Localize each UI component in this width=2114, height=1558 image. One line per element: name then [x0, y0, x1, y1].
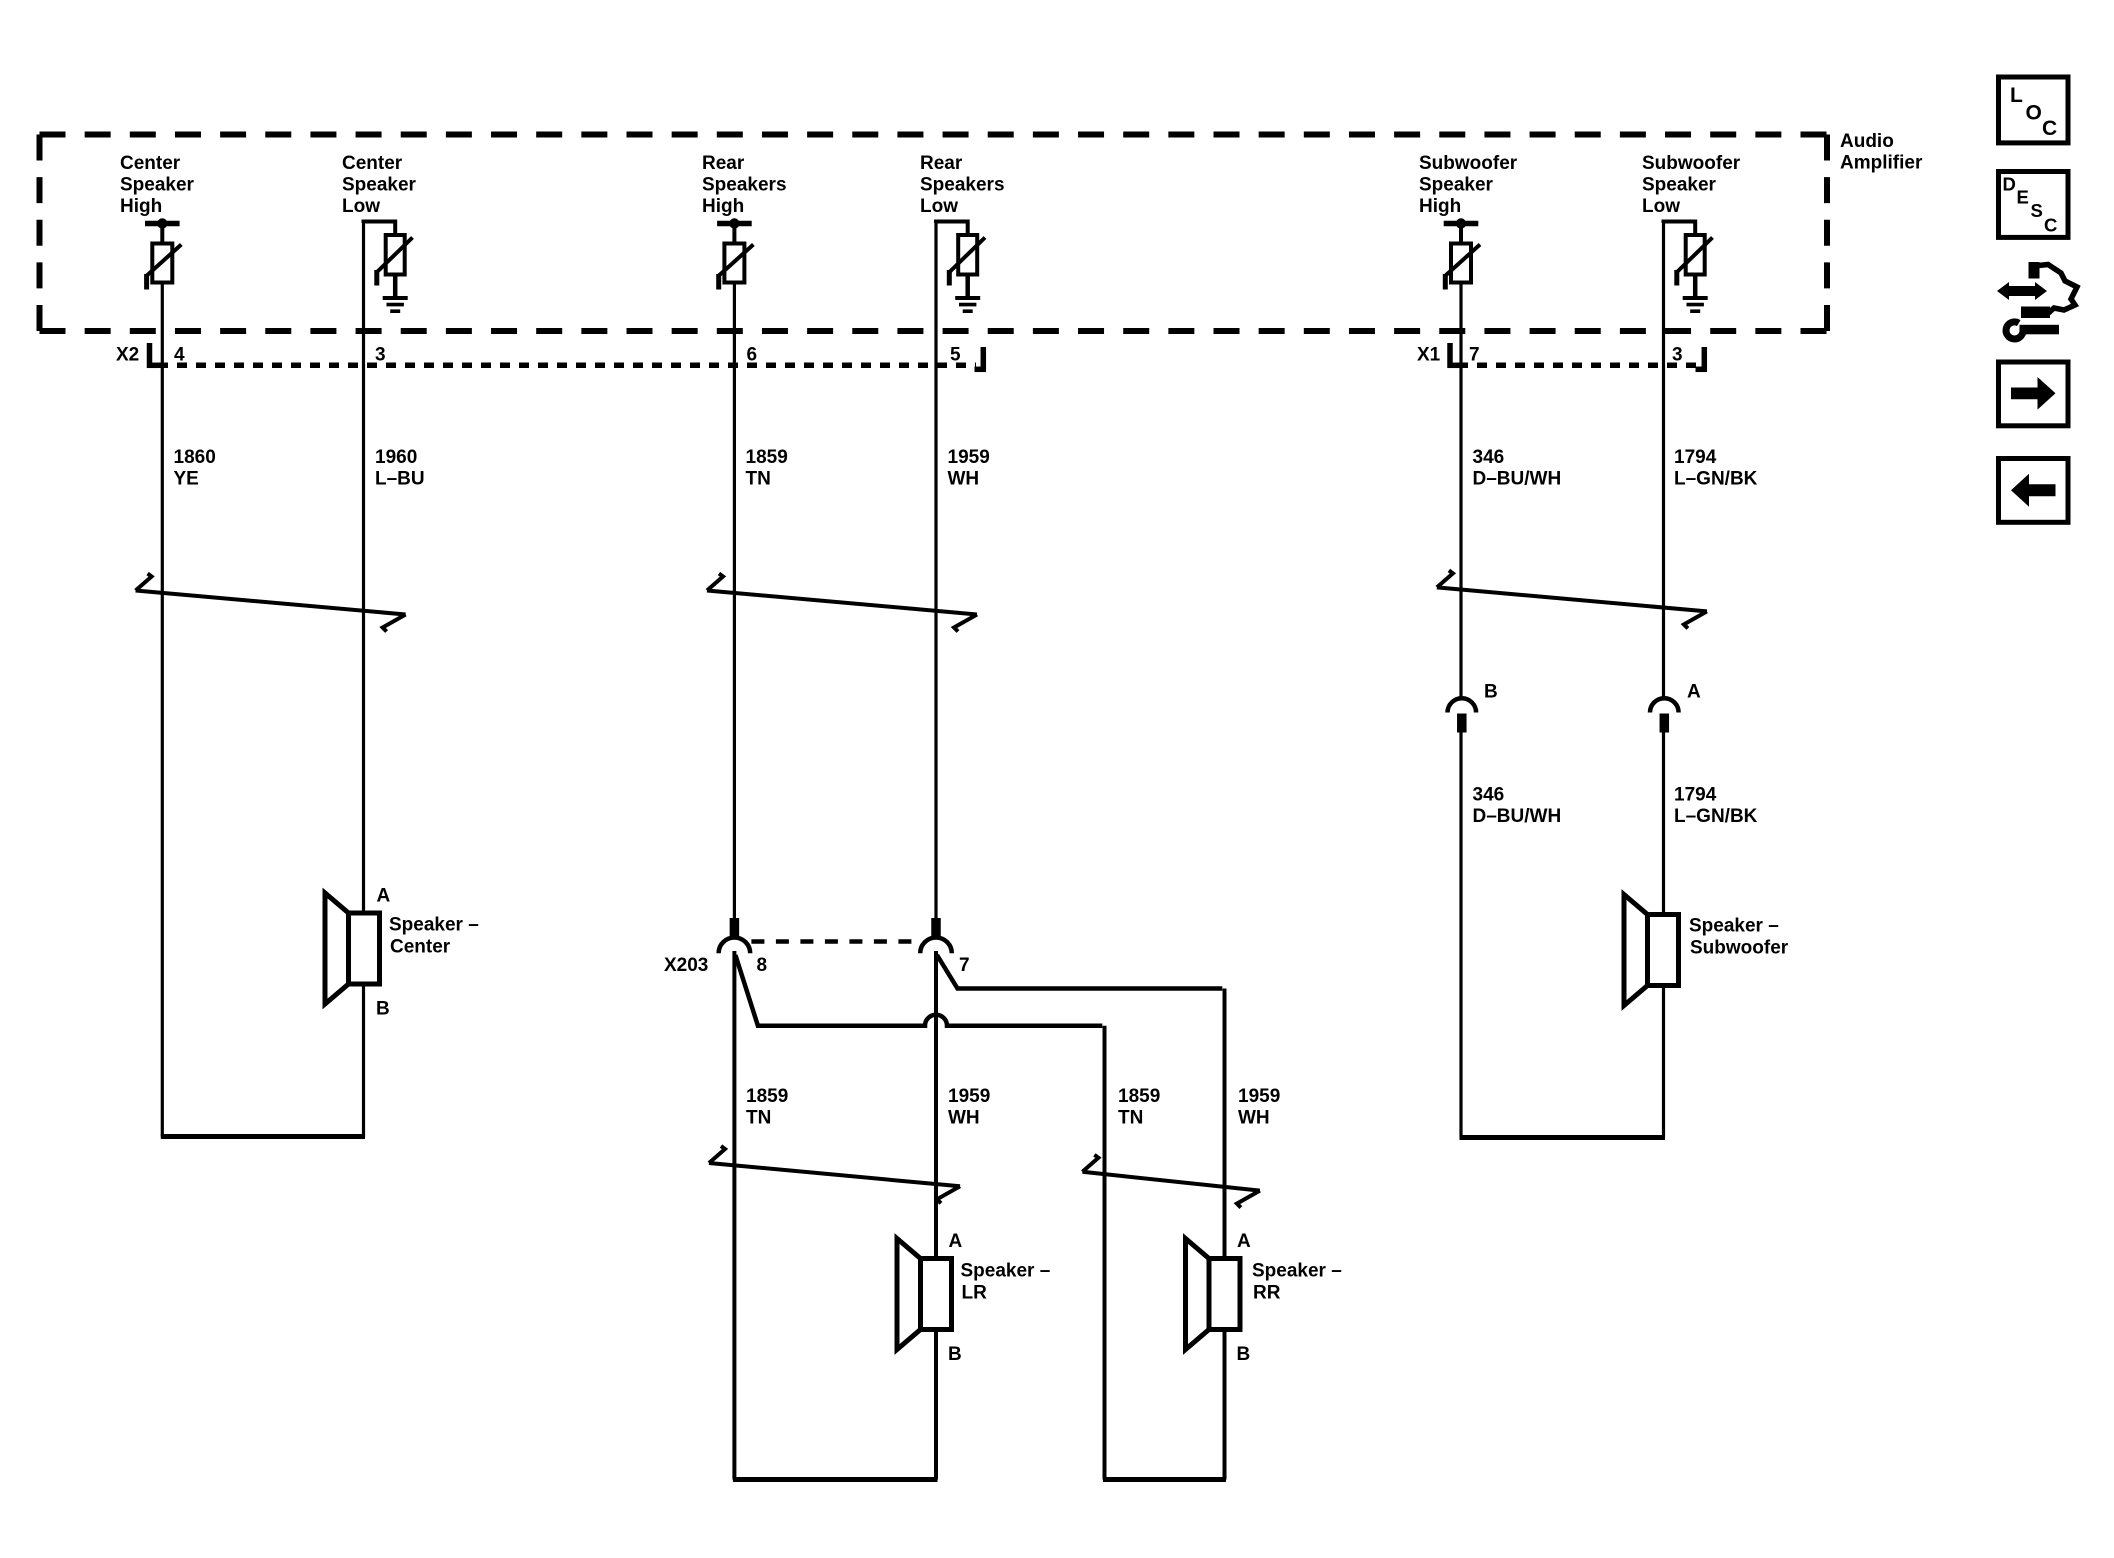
svg-text:Speaker –: Speaker –: [1689, 916, 1779, 937]
svg-text:X2: X2: [116, 345, 139, 366]
connector X2 bracket: [147, 343, 159, 368]
svg-text:8: 8: [757, 955, 768, 976]
wire circuit 1859 TN, amp X2-6 to X203 pin 8: [733, 283, 736, 919]
wire circuit 346 D-BU/WH, amp X1-7 to inline connector B: [1459, 283, 1462, 700]
svg-text:Center: Center: [120, 153, 181, 174]
svg-text:X1: X1: [1417, 345, 1441, 366]
svg-text:Subwoofer: Subwoofer: [1419, 153, 1518, 174]
svg-text:Speaker –: Speaker –: [961, 1261, 1051, 1282]
svg-text:O: O: [2026, 102, 2042, 125]
Speaker-RR terminal B: [1237, 1344, 1251, 1365]
svg-text:L–BU: L–BU: [375, 469, 425, 490]
svg-text:D: D: [2003, 174, 2016, 195]
wire label 1959 WH to LR: [948, 1086, 990, 1129]
pin label Center Speaker Low: [342, 153, 417, 217]
svg-text:Low: Low: [1642, 196, 1680, 217]
svg-text:1960: 1960: [375, 447, 417, 468]
svg-text:B: B: [948, 1344, 962, 1365]
svg-text:D–BU/WH: D–BU/WH: [1473, 469, 1562, 490]
X2 pin 4: [174, 345, 185, 366]
wire circuit 1959 WH, amp X2-5 to X203 pin 7: [934, 222, 937, 919]
connector X203 label: [664, 955, 708, 976]
svg-text:LR: LR: [962, 1283, 988, 1304]
svg-text:Rear: Rear: [920, 153, 963, 174]
pin label Subwoofer Speaker High: [1419, 153, 1518, 217]
svg-text:Speakers: Speakers: [920, 175, 1005, 196]
X2 pin 6: [747, 345, 758, 366]
Speaker-LR terminal B: [948, 1344, 962, 1365]
svg-text:346: 346: [1473, 785, 1505, 806]
svg-text:1959: 1959: [948, 1086, 990, 1107]
X2 pin 5: [950, 345, 961, 366]
wire circuit 1959 WH, X203 pin 7 down through Speaker-LR: [934, 951, 938, 1480]
pin label Subwoofer Speaker Low: [1642, 153, 1741, 217]
svg-text:B: B: [1237, 1344, 1251, 1365]
Speaker-RR terminal A: [1237, 1231, 1251, 1252]
svg-text:B: B: [1484, 682, 1498, 703]
Speaker-Subwoofer symbol: [1624, 895, 1679, 1006]
svg-text:3: 3: [1672, 345, 1683, 366]
inline connector A female terminal arc: [1650, 698, 1679, 712]
svg-text:L–GN/BK: L–GN/BK: [1674, 806, 1758, 827]
Speaker-LR terminal A: [949, 1231, 963, 1252]
wire splice loop Speaker-Subwoofer bottom: [1460, 1135, 1666, 1140]
wire label 1859 TN to LR: [746, 1086, 788, 1129]
svg-text:346: 346: [1473, 447, 1505, 468]
Speaker-RR symbol: [1186, 1239, 1241, 1350]
svg-text:Subwoofer: Subwoofer: [1642, 153, 1741, 174]
svg-text:1859: 1859: [1118, 1086, 1160, 1107]
svg-text:Speaker –: Speaker –: [1252, 1261, 1342, 1282]
svg-text:4: 4: [174, 345, 185, 366]
wire label 1960 L-BU: [375, 447, 425, 490]
svg-text:D–BU/WH: D–BU/WH: [1473, 806, 1562, 827]
Speaker-LR label: [961, 1261, 1051, 1304]
svg-text:Speaker –: Speaker –: [389, 915, 479, 936]
svg-text:YE: YE: [174, 469, 199, 490]
svg-text:TN: TN: [746, 469, 771, 490]
harness break rear speaker feed pair: [707, 574, 977, 632]
wire label 1859 TN to RR: [1118, 1086, 1160, 1129]
svg-text:1859: 1859: [746, 447, 788, 468]
X2 pin 3: [375, 345, 386, 366]
svg-text:TN: TN: [746, 1108, 771, 1129]
wire splice loop Speaker-LR bottom: [733, 1477, 938, 1482]
svg-text:C: C: [2042, 117, 2057, 140]
harness break subwoofer pair: [1437, 570, 1707, 628]
Center Speaker High output terminal (variable attenuator symbol): [145, 218, 181, 289]
Speaker-LR symbol: [897, 1239, 952, 1350]
X1 pin 3: [1672, 345, 1683, 366]
svg-text:Rear: Rear: [702, 153, 745, 174]
wire branch X203-8 to RR return (with hop over 1959 WH): [735, 955, 1102, 1026]
harness break center speaker pair: [136, 574, 406, 632]
ground symbol at Subwoofer Speaker Low: [1683, 298, 1708, 311]
svg-text:C: C: [2044, 215, 2057, 236]
inline connector B male pin: [1457, 714, 1467, 733]
svg-text:1794: 1794: [1674, 447, 1717, 468]
connector X2 label: [116, 345, 139, 366]
inline connector A male pin: [1660, 714, 1670, 733]
Speaker-Center symbol: [325, 893, 380, 1004]
svg-text:7: 7: [959, 955, 970, 976]
sidebar DESC button: [1999, 172, 2069, 238]
svg-text:Low: Low: [342, 196, 380, 217]
svg-text:Speaker: Speaker: [120, 175, 195, 196]
svg-text:Speakers: Speakers: [702, 175, 787, 196]
connector X1 bracket: [1448, 343, 1460, 368]
sidebar back arrow button: [1999, 459, 2069, 523]
harness break LR speaker pair: [709, 1146, 960, 1203]
Speaker-Center label: [389, 915, 479, 958]
label Audio Amplifier: [1840, 131, 1923, 174]
ground symbol at Center Speaker Low: [383, 298, 408, 311]
svg-text:TN: TN: [1118, 1108, 1143, 1129]
inline connector terminal letter B: [1484, 682, 1498, 703]
Speaker-Center terminal A: [377, 886, 391, 907]
ground symbol at Rear Speakers Low: [955, 298, 980, 311]
wire circuit 1860 YE, amp X2-4 down to splice U1: [161, 283, 164, 1137]
svg-text:L: L: [2010, 84, 2023, 107]
svg-text:1794: 1794: [1674, 785, 1717, 806]
svg-text:WH: WH: [1238, 1108, 1270, 1129]
svg-text:3: 3: [375, 345, 386, 366]
svg-text:High: High: [1419, 196, 1461, 217]
connector X2 dashed harness line: [158, 363, 976, 369]
connector X203 pin 7 number: [959, 955, 970, 976]
sidebar LOC button: [1999, 77, 2069, 143]
svg-text:B: B: [376, 999, 390, 1020]
svg-text:X203: X203: [664, 955, 708, 976]
harness break RR speaker pair: [1082, 1155, 1260, 1208]
sidebar wiring/repair icon: double arrow: [1997, 282, 2047, 300]
svg-text:1959: 1959: [1238, 1086, 1280, 1107]
svg-text:A: A: [949, 1231, 963, 1252]
svg-text:Subwoofer: Subwoofer: [1690, 938, 1789, 959]
svg-text:S: S: [2031, 200, 2043, 221]
svg-text:RR: RR: [1253, 1283, 1281, 1304]
svg-text:E: E: [2017, 187, 2029, 208]
svg-text:High: High: [120, 196, 162, 217]
connector X203 pin 8 number: [757, 955, 768, 976]
svg-text:1860: 1860: [174, 447, 216, 468]
svg-text:A: A: [377, 886, 391, 907]
Speaker-Subwoofer label: [1689, 916, 1789, 959]
svg-text:WH: WH: [948, 1108, 980, 1129]
connector X203 pin 8 male pin: [730, 918, 740, 939]
svg-text:Amplifier: Amplifier: [1840, 153, 1923, 174]
wire circuit 1794 L-GN/BK, connector A through Speaker-Subwoofer: [1662, 733, 1665, 1138]
sidebar wiring/repair icon: wrench: [2006, 322, 2059, 339]
svg-text:A: A: [1687, 682, 1701, 703]
inline connector terminal letter A: [1687, 682, 1701, 703]
pin label Rear Speakers Low: [920, 153, 1005, 217]
connector X203 pin 7 female terminal arc: [920, 938, 952, 954]
inline connector B female terminal arc: [1448, 698, 1477, 712]
wire label 1959 WH upper: [948, 447, 990, 490]
Subwoofer Speaker High output terminal (variable attenuator symbol): [1444, 218, 1480, 289]
pin label Rear Speakers High: [702, 153, 787, 217]
svg-text:Audio: Audio: [1840, 131, 1894, 152]
connector X203 dashed link: [751, 939, 919, 944]
svg-text:Center: Center: [342, 153, 403, 174]
wire label 346 D-BU/WH upper: [1473, 447, 1562, 490]
wire circuit 1959 WH branch through Speaker-RR: [1223, 989, 1227, 1480]
wire label 346 D-BU/WH lower: [1473, 785, 1562, 828]
svg-text:Speaker: Speaker: [342, 175, 417, 196]
wire circuit 1794 L-GN/BK, amp X1-3 to inline connector A: [1662, 222, 1665, 700]
wire label 1794 L-GN/BK lower: [1674, 785, 1758, 828]
wire splice loop Speaker-RR bottom: [1103, 1477, 1226, 1482]
svg-text:Low: Low: [920, 196, 958, 217]
Speaker-RR label: [1252, 1261, 1342, 1304]
svg-text:L–GN/BK: L–GN/BK: [1674, 469, 1758, 490]
pin label Center Speaker High: [120, 153, 195, 217]
wire circuit 1960 L-BU, amp X2-3 down through Speaker-Center: [362, 222, 365, 1137]
wire branch X203-7 to RR feed: [937, 955, 1222, 989]
sidebar forward arrow button: [1999, 362, 2069, 426]
wire circuit 1859 TN branch to Speaker-RR return: [1103, 1026, 1107, 1480]
svg-text:Speaker: Speaker: [1642, 175, 1717, 196]
svg-text:1959: 1959: [948, 447, 990, 468]
Center Speaker Low output terminal (variable attenuator to ground): [364, 222, 413, 298]
Speaker-Center terminal B: [376, 999, 390, 1020]
svg-text:A: A: [1237, 1231, 1251, 1252]
connector X1 end bracket: [1696, 347, 1708, 372]
wire label 1794 L-GN/BK upper: [1674, 447, 1758, 490]
connector X2 end bracket: [975, 347, 987, 372]
connector X203 pin 8 female terminal arc: [719, 938, 751, 954]
wire label 1859 TN upper: [746, 447, 788, 490]
wire splice loop Speaker-Center bottom: [161, 1134, 365, 1139]
X1 pin 7: [1469, 345, 1480, 366]
svg-text:7: 7: [1469, 345, 1480, 366]
svg-text:WH: WH: [948, 469, 980, 490]
svg-text:1859: 1859: [746, 1086, 788, 1107]
sidebar wiring/repair icon: harness outline: [2021, 262, 2077, 318]
connector X203 pin 7 male pin: [931, 918, 941, 939]
wire circuit 1859 TN, X203 pin 8 down to LR return: [732, 951, 736, 1480]
Rear Speakers Low output terminal (variable attenuator to ground): [936, 222, 985, 298]
svg-text:Center: Center: [390, 937, 451, 958]
svg-text:5: 5: [950, 345, 961, 366]
wire label 1959 WH to RR: [1238, 1086, 1280, 1129]
wire label 1860 YE: [174, 447, 216, 490]
svg-text:6: 6: [747, 345, 758, 366]
Rear Speakers High output terminal (variable attenuator symbol): [717, 218, 753, 289]
svg-text:High: High: [702, 196, 744, 217]
Audio Amplifier dashed box: [40, 135, 1828, 332]
Subwoofer Speaker Low output terminal (variable attenuator to ground): [1664, 222, 1713, 298]
connector X1 label: [1417, 345, 1441, 366]
wire circuit 346 D-BU/WH, connector B down to subwoofer return: [1459, 733, 1462, 1138]
svg-text:Speaker: Speaker: [1419, 175, 1494, 196]
connector X1 dashed harness line: [1458, 363, 1697, 369]
